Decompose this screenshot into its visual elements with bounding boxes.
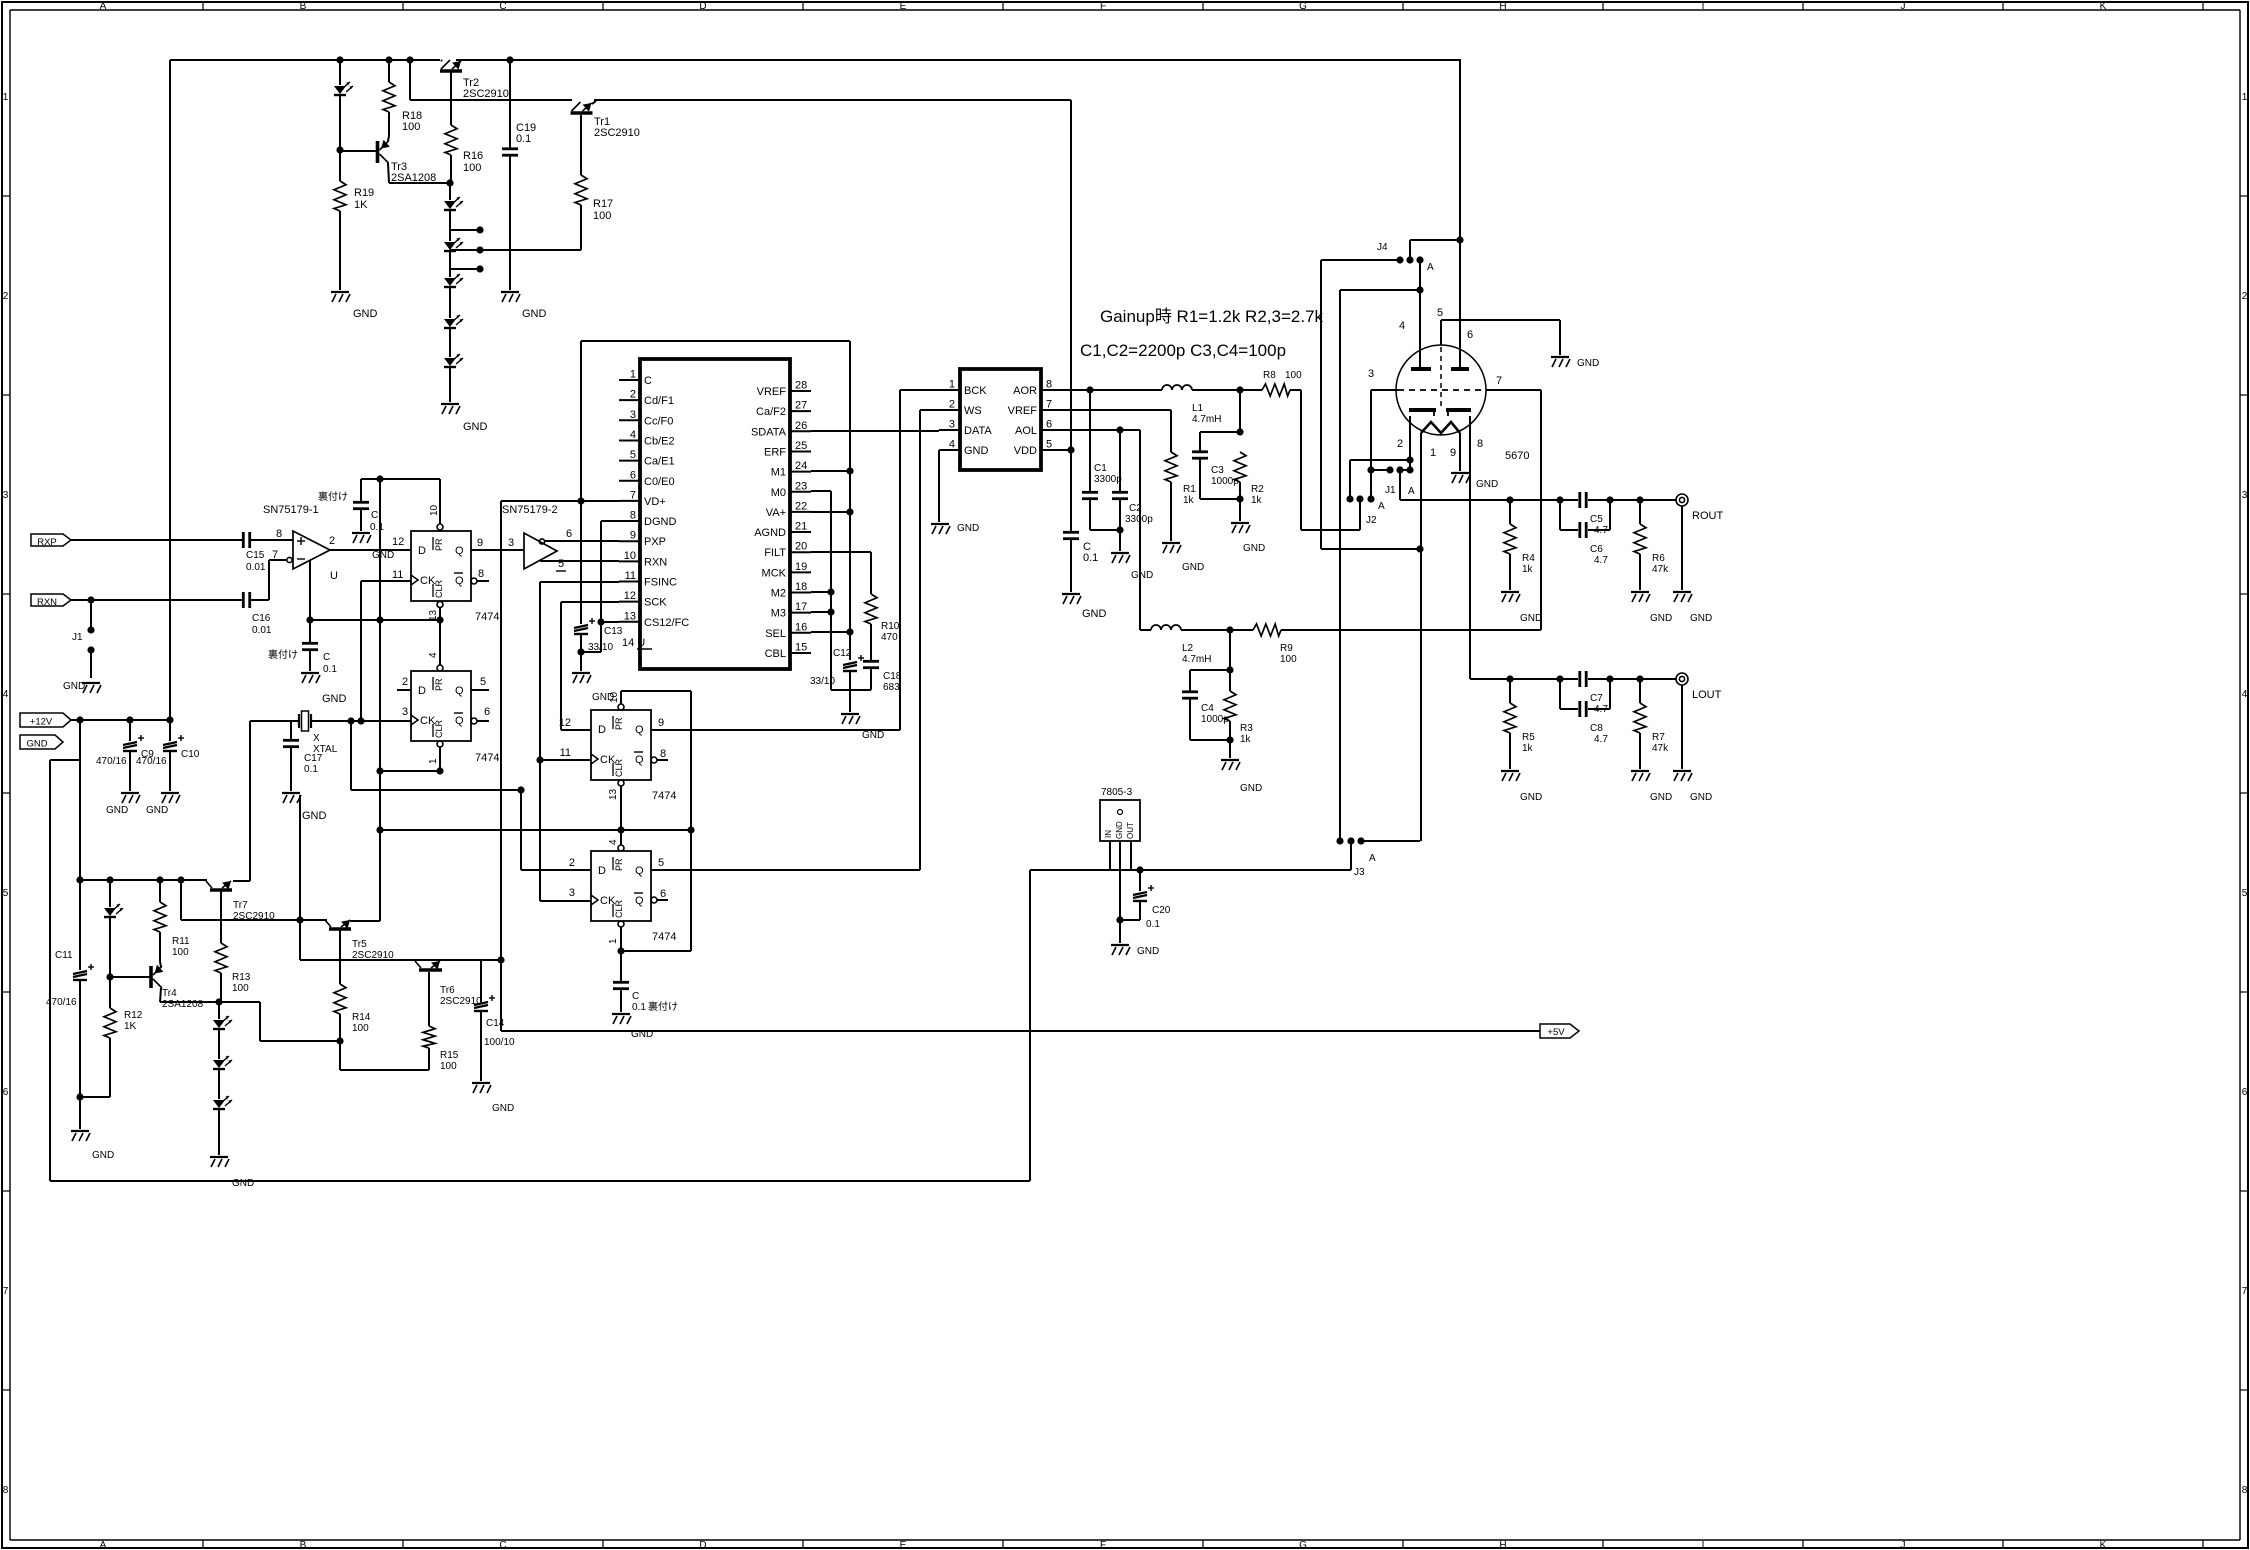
svg-text:5: 5 (658, 857, 664, 869)
svg-text:A: A (1408, 486, 1415, 497)
svg-text:GND: GND (1520, 613, 1542, 624)
resistor R2 1k (1234, 452, 1264, 506)
FF1 PR bubble (437, 524, 443, 530)
resistor R10 (811, 552, 900, 661)
label backup note 1 (318, 490, 348, 503)
FF4 CLR pin (617, 921, 624, 955)
svg-text:GND: GND (63, 681, 85, 692)
svg-text:R12: R12 (124, 1010, 143, 1021)
label pin8 opamp (276, 528, 282, 540)
ground below LOUT (1673, 771, 1712, 803)
svg-text:CBL: CBL (765, 648, 786, 660)
jack LOUT (1676, 673, 1722, 701)
capacitor C7 4.7 (1580, 671, 1609, 715)
connector J4 jumper (1377, 242, 1434, 273)
svg-text:B: B (300, 1, 307, 12)
wire +V bus left drop to +12V rail (169, 60, 171, 720)
voltage regulator 7805-3 (1100, 787, 1140, 841)
svg-text:0.1: 0.1 (516, 133, 531, 145)
wire +12V feed down (79, 720, 81, 880)
wire Tr3 collector to LED string (389, 182, 450, 184)
resistor R17 (575, 115, 613, 250)
label gain note line2 (1080, 341, 1286, 360)
wire Tr5 collector feed (181, 880, 327, 924)
svg-text:8: 8 (630, 510, 636, 522)
svg-text:C5: C5 (1590, 514, 1603, 525)
svg-text:100: 100 (463, 162, 481, 174)
svg-text:47k: 47k (1652, 564, 1669, 575)
ground below C12 (841, 714, 884, 741)
svg-text:100: 100 (440, 1061, 457, 1072)
node VDD junction (1067, 446, 1074, 453)
flip-flop 7474 FF1 (411, 531, 499, 623)
wire xtal left drop (249, 721, 251, 880)
tube grid dashed (1398, 389, 1486, 391)
svg-text:C17: C17 (304, 753, 323, 764)
node VA+ join (811, 508, 854, 515)
IC U2 DAC 8-pin body (960, 369, 1041, 470)
svg-text:C: C (632, 991, 639, 1002)
svg-text:RXN: RXN (644, 556, 667, 568)
svg-text:M2: M2 (771, 588, 786, 600)
svg-text:4.7: 4.7 (1594, 555, 1608, 566)
transistor Tr5 2SC2910 (325, 920, 394, 961)
FF3 Qbar bubble (651, 757, 668, 763)
wire CLR tie bottom (621, 950, 691, 952)
svg-text:Q: Q (635, 724, 644, 736)
svg-text:6: 6 (2242, 1087, 2248, 1098)
flip-flop 7474 FF2 (411, 671, 499, 764)
wire grid pin3 drop (1371, 390, 1398, 499)
ground below R4 (1501, 592, 1542, 624)
svg-text:22: 22 (795, 500, 807, 512)
svg-text:D: D (699, 1540, 706, 1550)
ground below LED chain (210, 1157, 254, 1189)
svg-text:J2: J2 (1366, 515, 1377, 526)
wire ROUT jack ground (1681, 506, 1683, 590)
connector GND tag (20, 735, 63, 750)
svg-text:R14: R14 (352, 1012, 371, 1023)
svg-text:GND: GND (232, 1178, 254, 1189)
svg-text:CLR: CLR (434, 719, 444, 738)
wire cathode pin2 drop (1406, 416, 1413, 470)
svg-text:GND: GND (1690, 792, 1712, 803)
svg-text:F: F (1100, 1540, 1106, 1550)
svg-text:A: A (1378, 501, 1385, 512)
wire FF4 Q to WS (651, 410, 939, 870)
LED D7a (213, 1002, 232, 1029)
capacitor C18 (863, 661, 902, 693)
svg-text:1k: 1k (1240, 734, 1252, 745)
inductor L2 4.7mH (1140, 625, 1211, 665)
svg-text:R13: R13 (232, 972, 251, 983)
svg-text:VREF: VREF (757, 386, 787, 398)
wire RXP to C15 (71, 539, 242, 541)
svg-text:683: 683 (883, 682, 900, 693)
svg-text:6: 6 (660, 888, 666, 900)
svg-text:0.1: 0.1 (632, 1002, 646, 1013)
svg-text:470/16: 470/16 (136, 756, 167, 767)
svg-text:G: G (1299, 1540, 1307, 1550)
svg-text:R6: R6 (1652, 553, 1665, 564)
tube left cathode (1409, 410, 1436, 416)
svg-text:ROUT: ROUT (1692, 510, 1723, 522)
svg-text:4.7mH: 4.7mH (1182, 654, 1211, 665)
svg-text:1: 1 (608, 938, 619, 944)
svg-text:GND: GND (353, 308, 378, 320)
svg-text:H: H (1499, 1540, 1506, 1550)
transistor Tr3 2SA1208 (340, 136, 436, 184)
ground below ROUT (1673, 592, 1712, 624)
svg-text:4: 4 (3, 689, 9, 700)
svg-text:G: G (1299, 1, 1307, 12)
resistor R4 1k (1504, 500, 1535, 590)
connector J1 input jumper (72, 600, 95, 678)
wire cathode R out (1400, 470, 1578, 500)
wire 7805 IN pin (1109, 841, 1111, 870)
svg-text:C1,C2=2200p C3,C4=100p: C1,C2=2200p C3,C4=100p (1080, 341, 1286, 360)
svg-text:8: 8 (3, 1485, 9, 1496)
svg-text:3: 3 (3, 490, 9, 501)
svg-text:GND: GND (322, 693, 347, 705)
LED D7b (213, 1029, 232, 1069)
capacitor C19 (502, 60, 536, 290)
svg-text:A: A (1369, 853, 1376, 864)
label FF2 pin numbers (402, 652, 490, 764)
svg-text:J1: J1 (72, 632, 83, 643)
svg-text:J: J (1901, 1540, 1906, 1550)
wire RXN to C16 (71, 596, 242, 603)
svg-text:Tr6: Tr6 (440, 985, 455, 996)
wire bias rail (80, 721, 250, 881)
ground below 7805 (1111, 945, 1159, 957)
svg-text:A: A (100, 1540, 107, 1550)
svg-text:Q: Q (635, 754, 644, 766)
svg-text:GND: GND (463, 421, 488, 433)
wire L1 to R8 (1192, 386, 1262, 393)
svg-text:17: 17 (795, 601, 807, 613)
svg-text:11: 11 (625, 570, 636, 582)
resistor R12 1K (104, 977, 143, 1097)
label FF1 pin numbers (392, 504, 484, 621)
wire C16 to opamp minus (250, 560, 286, 600)
svg-text:Cd/F1: Cd/F1 (644, 395, 674, 407)
FF2 CLR pin (436, 741, 443, 775)
ground below backup cap1 (352, 533, 371, 543)
ground below backup cap2 (301, 673, 347, 705)
svg-text:0.01: 0.01 (252, 625, 272, 636)
svg-text:J: J (1901, 1, 1906, 12)
svg-text:+5V: +5V (1547, 1027, 1565, 1038)
svg-text:M0: M0 (771, 487, 786, 499)
svg-text:3: 3 (508, 537, 514, 549)
svg-text:9: 9 (477, 537, 483, 549)
wire heater pin9 to ground (1459, 433, 1461, 471)
wire C7 to LOUT (1588, 675, 1676, 682)
ground below R1 (1162, 543, 1204, 573)
svg-text:7: 7 (3, 1286, 9, 1297)
FF4 Qbar bubble (651, 897, 668, 903)
resistor R8 100 (1262, 370, 1302, 396)
capacitor C15 (243, 532, 293, 573)
ground below C19 (501, 292, 547, 320)
svg-text:GND: GND (1137, 946, 1159, 957)
wire plate right from bus (1456, 60, 1463, 369)
svg-text:2: 2 (949, 399, 955, 411)
wire xtal line (250, 717, 411, 724)
svg-text:Tr7: Tr7 (233, 900, 248, 911)
svg-text:10: 10 (609, 691, 620, 703)
wire LED stub 2 to R17 (450, 208, 581, 254)
node Tr3 base junction (336, 146, 343, 153)
LED D8 (334, 60, 353, 150)
svg-text:H: H (1499, 1, 1506, 12)
wire C11 to ground (79, 1097, 81, 1129)
svg-text:GND: GND (492, 1103, 514, 1114)
svg-text:7: 7 (630, 489, 636, 501)
wire clock net vertical (379, 479, 381, 921)
svg-text:GND: GND (1240, 783, 1262, 794)
transistor Tr7 2SC2910 (206, 881, 275, 922)
wire xtal riser to jumper (351, 721, 525, 794)
FF1 CLR pin to node (436, 602, 443, 624)
LED D6 (104, 880, 123, 977)
wire tube pin5 to ground (1441, 320, 1560, 355)
capacitor C16 (243, 592, 272, 636)
svg-text:C8: C8 (1590, 723, 1603, 734)
svg-text:100: 100 (1280, 654, 1297, 665)
svg-text:裏付け: 裏付け (268, 648, 298, 661)
svg-text:9: 9 (658, 717, 664, 729)
svg-text:100: 100 (402, 121, 420, 133)
svg-text:4: 4 (949, 439, 955, 451)
svg-text:SN75179-1: SN75179-1 (263, 504, 319, 516)
wire J3 left riser (1339, 290, 1341, 841)
svg-text:K: K (2100, 1540, 2107, 1550)
svg-text:13: 13 (608, 788, 619, 800)
FF3 PR net to GND label (618, 691, 691, 710)
resistor R19 (334, 150, 374, 290)
ground below U2 (931, 523, 979, 534)
ground below C2 (1111, 553, 1153, 581)
svg-text:1: 1 (1430, 447, 1436, 459)
svg-text:X: X (313, 733, 320, 744)
svg-text:AOR: AOR (1013, 385, 1037, 397)
svg-text:J4: J4 (1377, 242, 1388, 253)
svg-text:7: 7 (1046, 399, 1052, 411)
transistor Tr1 2SC2910 (571, 102, 640, 139)
resistor R9 100 (1253, 624, 1297, 665)
capacitor C2 3300p (1112, 430, 1153, 530)
svg-text:4: 4 (428, 652, 439, 658)
tube heater (1421, 422, 1460, 433)
capacitor C20 electrolytic (1120, 870, 1171, 930)
LED string D4 (444, 287, 463, 328)
svg-text:2: 2 (2242, 291, 2248, 302)
svg-text:B: B (300, 1540, 307, 1550)
label FF4 pin4 (608, 839, 619, 845)
svg-text:R10: R10 (881, 621, 900, 632)
svg-text:4: 4 (608, 839, 619, 845)
svg-text:GND: GND (1650, 792, 1672, 803)
svg-text:8: 8 (660, 748, 666, 760)
wire receiver out to PXP (545, 528, 620, 541)
svg-text:R19: R19 (354, 187, 374, 199)
svg-text:18: 18 (795, 581, 807, 593)
svg-text:7474: 7474 (652, 790, 676, 802)
wire +12V branch left (50, 760, 80, 1181)
LED string D3 (444, 251, 463, 287)
FF2 Q stub (471, 689, 489, 691)
svg-text:R17: R17 (593, 198, 613, 210)
IC U1 right pins 15-28 (751, 380, 811, 660)
svg-text:DATA: DATA (964, 425, 992, 437)
wire jumper drop to FF4 D (521, 790, 591, 870)
wire C5 to ROUT (1588, 496, 1676, 503)
svg-text:6: 6 (566, 528, 572, 540)
svg-text:C: C (323, 652, 330, 663)
svg-text:C11: C11 (55, 950, 73, 961)
svg-text:SDATA: SDATA (751, 426, 787, 438)
svg-text:27: 27 (795, 400, 807, 412)
svg-text:100/10: 100/10 (484, 1037, 515, 1048)
svg-text:5: 5 (2242, 888, 2248, 899)
svg-text:C14: C14 (486, 1018, 505, 1029)
svg-text:6: 6 (484, 706, 490, 718)
svg-text:3: 3 (2242, 490, 2248, 501)
wire Tr4 collector line (160, 998, 340, 1041)
svg-text:C6: C6 (1590, 544, 1603, 555)
svg-text:1: 1 (949, 379, 955, 391)
connector RXP tag (31, 534, 71, 548)
wire U2 GND pin to ground (938, 450, 940, 522)
wire AOL drop to L2 (1139, 430, 1141, 630)
wire preset bus (380, 829, 691, 831)
svg-text:GND: GND (964, 445, 989, 457)
wire LED stub 3 (450, 265, 484, 272)
wire +12V rail (71, 716, 174, 723)
svg-text:14 U: 14 U (622, 637, 645, 649)
wire C13 to ground (580, 652, 582, 671)
svg-text:1k: 1k (1251, 495, 1263, 506)
svg-text:CLR: CLR (614, 899, 624, 918)
svg-text:GND: GND (106, 805, 128, 816)
svg-text:C: C (499, 1540, 506, 1550)
ground tube pin5 (1551, 357, 1599, 369)
wire bus stub to Tr1 rail (409, 60, 411, 100)
svg-text:2: 2 (630, 389, 636, 401)
svg-text:2SC2910: 2SC2910 (594, 127, 640, 139)
svg-text:A: A (100, 1, 107, 12)
transistor Tr6 2SC2910 (415, 961, 482, 1007)
svg-text:GND: GND (1115, 821, 1124, 839)
svg-text:2: 2 (402, 676, 408, 688)
svg-text:6: 6 (3, 1087, 9, 1098)
svg-text:5: 5 (630, 449, 636, 461)
capacitor C 0.1 backup3 (613, 951, 678, 1013)
svg-text:33/10: 33/10 (588, 642, 613, 653)
wire bottom +12V run (50, 870, 1030, 1181)
wire Tr6 row line (300, 920, 505, 964)
svg-text:I: I (1702, 1540, 1705, 1550)
svg-text:GND: GND (372, 550, 394, 561)
svg-text:3: 3 (630, 409, 636, 421)
resistor R7 47k (1634, 679, 1669, 769)
svg-text:M1: M1 (771, 467, 786, 479)
svg-text:100: 100 (1285, 370, 1302, 381)
capacitor C5 4.7 (1580, 492, 1609, 536)
ground below backup cap3 (612, 1014, 653, 1040)
FF3 CLR pin (617, 780, 624, 834)
svg-text:C16: C16 (252, 613, 271, 624)
wire Tr7 base down (220, 890, 222, 943)
svg-text:M3: M3 (771, 608, 786, 620)
resistor R1 1k (1165, 452, 1196, 541)
svg-text:1: 1 (3, 92, 9, 103)
svg-text:4.7mH: 4.7mH (1192, 414, 1221, 425)
node bias rail dots (76, 876, 184, 883)
svg-text:6: 6 (630, 469, 636, 481)
ground below C10 (146, 793, 180, 816)
svg-text:VDD: VDD (1014, 445, 1037, 457)
svg-text:6: 6 (1046, 419, 1052, 431)
svg-text:R4: R4 (1522, 553, 1535, 564)
svg-text:Ca/F2: Ca/F2 (756, 406, 786, 418)
wire opamp out to FF1 D (329, 535, 411, 561)
ground below C13 (572, 673, 614, 703)
svg-text:CLR: CLR (434, 579, 444, 598)
svg-text:3: 3 (949, 419, 955, 431)
ground below R5 (1501, 771, 1542, 803)
svg-text:R3: R3 (1240, 723, 1253, 734)
svg-text:GND: GND (957, 523, 979, 534)
svg-text:3: 3 (569, 887, 575, 899)
svg-text:IN: IN (1104, 830, 1113, 838)
inductor L1 4.7mH (1162, 385, 1221, 425)
wire cathode L out (1470, 416, 1578, 679)
svg-text:GND: GND (1243, 543, 1265, 554)
svg-text:U: U (330, 570, 338, 582)
svg-text:11: 11 (392, 569, 403, 581)
svg-text:C3: C3 (1211, 465, 1224, 476)
svg-text:1k: 1k (1522, 743, 1534, 754)
wire AOR node (1062, 386, 1162, 393)
wire top +V bus (170, 59, 1461, 61)
wire L2 to R9 (1181, 626, 1253, 633)
svg-text:R5: R5 (1522, 732, 1535, 743)
svg-text:C: C (644, 375, 652, 387)
resistor R14 100 (334, 984, 371, 1041)
svg-text:K: K (2100, 1, 2107, 12)
node M3 join (811, 608, 835, 615)
IC U2 pins (939, 379, 1062, 458)
wire DGND net (597, 521, 619, 652)
ground below C17 (282, 793, 327, 822)
svg-text:C1: C1 (1094, 463, 1107, 474)
svg-text:3: 3 (1368, 368, 1374, 380)
svg-text:R1: R1 (1183, 484, 1196, 495)
svg-text:VD+: VD+ (644, 496, 666, 508)
tube right plate (1451, 367, 1469, 371)
svg-text:0.1: 0.1 (323, 664, 337, 675)
svg-text:ERF: ERF (764, 446, 786, 458)
svg-text:5: 5 (480, 676, 486, 688)
svg-text:12: 12 (392, 536, 404, 548)
svg-text:28: 28 (795, 380, 807, 392)
svg-text:1: 1 (428, 758, 439, 764)
svg-text:6: 6 (1467, 329, 1473, 341)
svg-text:2: 2 (3, 291, 9, 302)
